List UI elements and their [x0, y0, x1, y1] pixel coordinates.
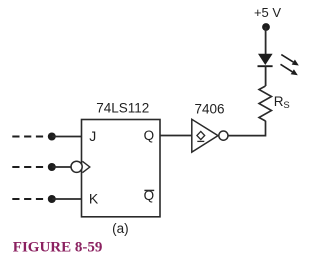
svg-text:J: J	[89, 128, 96, 144]
svg-text:FIGURE 8-59: FIGURE 8-59	[13, 240, 103, 256]
svg-text:74LS112: 74LS112	[96, 101, 149, 116]
svg-text:R: R	[274, 94, 284, 109]
svg-text:K: K	[89, 191, 99, 207]
svg-text:7406: 7406	[194, 102, 224, 117]
svg-text:(a): (a)	[112, 221, 129, 236]
svg-text:+5 V: +5 V	[254, 5, 281, 20]
svg-text:S: S	[283, 100, 289, 111]
svg-text:Q: Q	[144, 128, 155, 143]
